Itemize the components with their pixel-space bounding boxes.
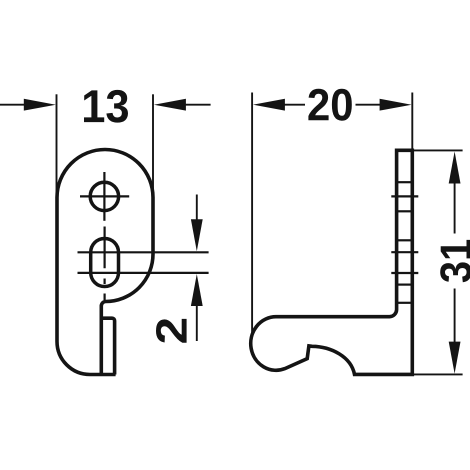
dim 20 extension line right [411, 93, 413, 152]
hole centerline vertical [103, 172, 105, 221]
side view hole centerline [391, 195, 418, 197]
dim 20 line right segment [356, 104, 381, 106]
side view hole edge line lower [397, 210, 413, 212]
dim 13 arrowhead right [154, 99, 186, 111]
dim 13 leader right [184, 104, 211, 106]
dim 31 extension line bottom [414, 373, 463, 375]
dim 2 arrowhead lower (points up) [191, 274, 203, 306]
dim 31 arrowhead bottom (points down) [449, 342, 461, 374]
front view plate outline [57, 150, 153, 375]
dim 2 arrow tail upper [196, 195, 198, 220]
dim 31 line upper segment [454, 183, 456, 234]
slot arc centerline lower / dim 2 extension [78, 272, 209, 274]
side view slot edge line upper [397, 239, 413, 241]
dim 20 line left segment [285, 104, 306, 106]
dim 2 arrowhead upper (points down) [191, 219, 203, 251]
dim text 13 [84, 90, 128, 123]
dim 31 arrowhead top (points up) [449, 152, 461, 184]
side view slot edge line lower [397, 284, 413, 286]
hole (round) [90, 182, 118, 210]
dim text 2 [156, 319, 187, 343]
dim 20 arrowhead left (points left) [253, 99, 285, 111]
dim 20 arrowhead right (points right) [380, 99, 412, 111]
dim 31 line lower segment [454, 289, 456, 343]
dim 2 arrow tail lower [196, 306, 198, 341]
slot (oblong hole) [91, 238, 119, 286]
dim 20 extension line left [251, 93, 253, 336]
dim text 31 [440, 240, 470, 282]
front view bent-tab edge [101, 318, 114, 374]
dim 31 extension line top [414, 149, 463, 151]
side view slot arc centerline upper [391, 251, 418, 253]
dim text 20 [308, 89, 351, 121]
hole centerline horizontal [80, 195, 129, 197]
slot centerline vertical [103, 227, 105, 301]
side view slot arc centerline lower [391, 272, 418, 274]
side view bend line [397, 302, 413, 304]
dim 13 extension line right [152, 94, 154, 199]
side view hole edge line upper [397, 181, 413, 183]
side view outline [251, 150, 413, 374]
slot arc centerline upper / dim 2 extension [78, 251, 209, 253]
dim 13 arrowhead left [24, 99, 56, 111]
dim 13 leader left [0, 104, 26, 106]
dim 13 extension line left [56, 94, 58, 199]
